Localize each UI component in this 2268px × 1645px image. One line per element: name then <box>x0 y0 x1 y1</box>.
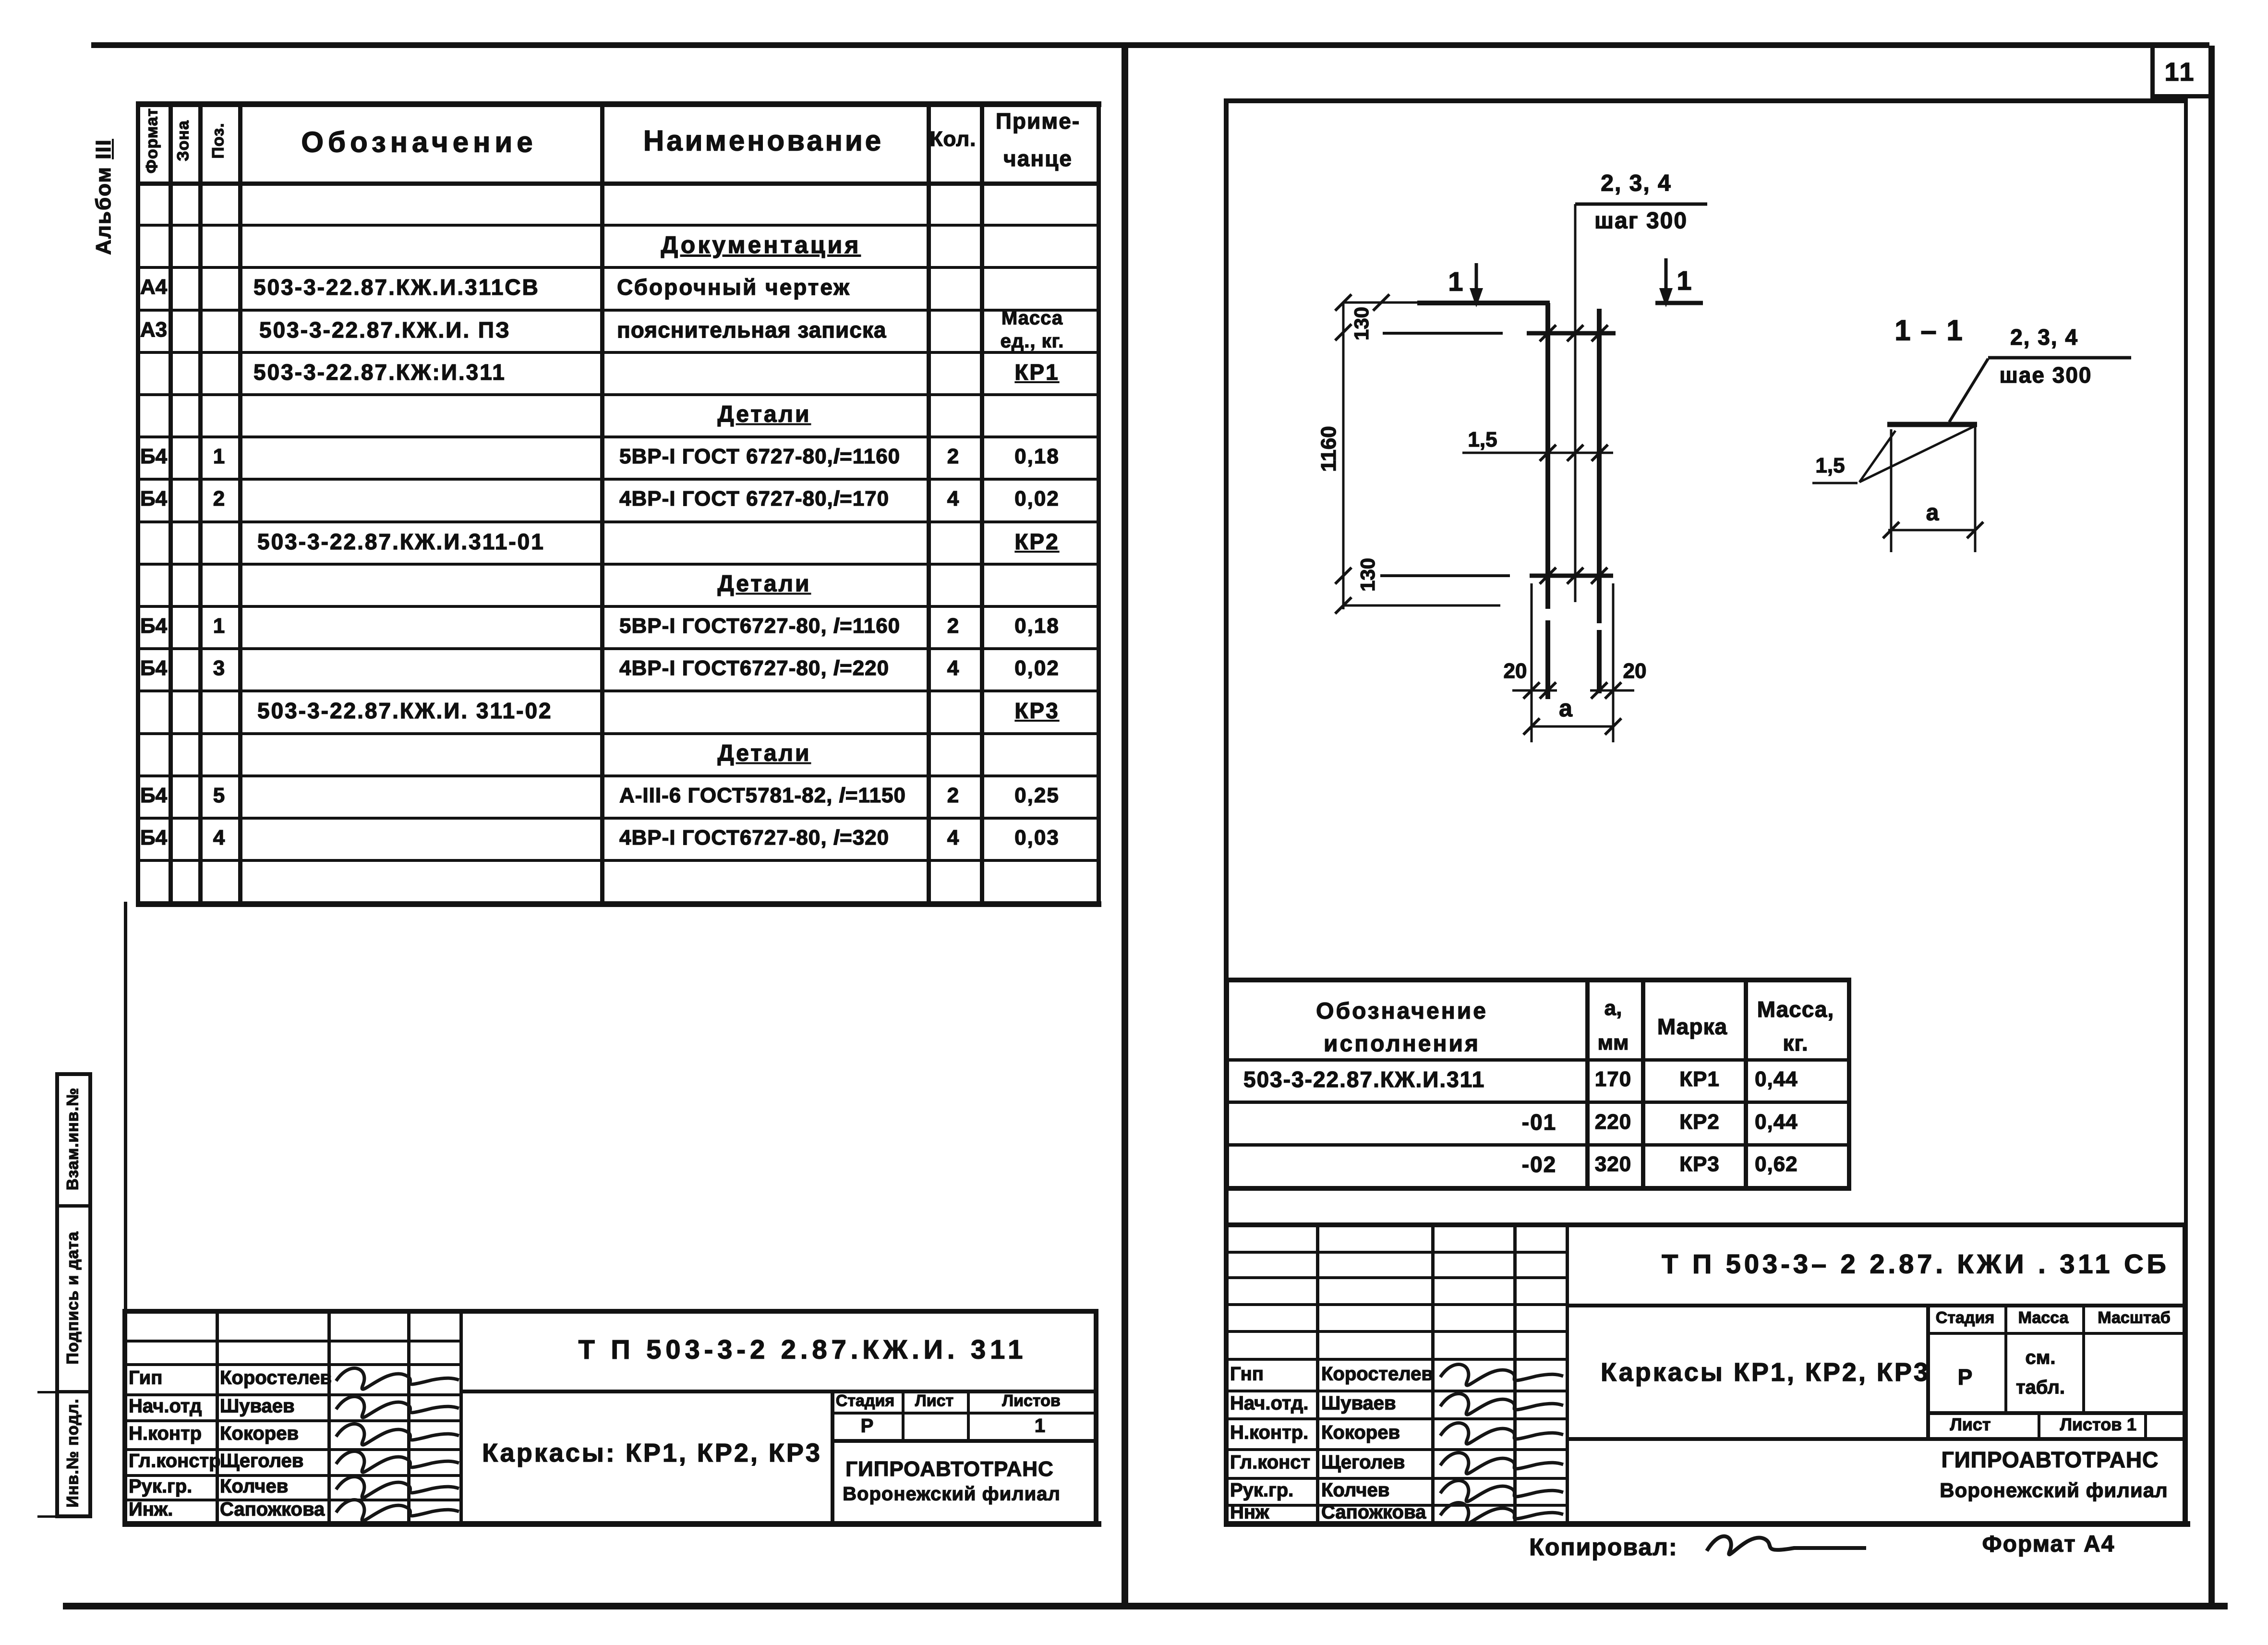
dim text a sec <box>1926 500 1939 526</box>
sec leader top line <box>1988 356 2131 360</box>
front bottom extension line <box>1343 605 1500 607</box>
sec right vline <box>1974 427 1977 552</box>
right person 4 <box>1321 1480 1389 1501</box>
cell poz 5 <box>213 784 225 808</box>
prim 018a <box>1014 445 1060 469</box>
spec table row line 15 <box>136 817 1100 820</box>
sec leader branch <box>1859 431 1895 482</box>
crossbar1 tick a <box>1540 325 1556 341</box>
sidebar stub line lower <box>37 1515 57 1518</box>
right titleblock right border <box>2183 1222 2187 1521</box>
front crossbar1 left part <box>1383 332 1503 335</box>
right person 2 <box>1321 1422 1400 1444</box>
left titleblock names row r2 <box>122 1363 459 1366</box>
header Oboznachenie <box>301 126 537 159</box>
prim 002b <box>1014 656 1060 680</box>
header Poz rotated <box>209 122 228 158</box>
signature squiggle 4 <box>336 1477 459 1498</box>
sidebar label Vzam <box>64 1088 83 1190</box>
left role 5 <box>129 1499 173 1521</box>
left titleblock names row r7 <box>122 1499 459 1501</box>
vt r3 c3 <box>1679 1152 1720 1176</box>
left titleblock names row r1 <box>122 1340 459 1343</box>
right person 5 <box>1321 1502 1426 1524</box>
sidebar label Inv <box>64 1398 83 1507</box>
spec table row line 6 <box>136 435 1100 438</box>
header Format rotated <box>143 108 162 173</box>
right stadia col2 <box>2082 1304 2085 1411</box>
vt r3 c4 <box>1755 1152 1798 1176</box>
right titleblock names row r9 <box>1224 1504 1566 1507</box>
spec table column line 5 <box>927 101 931 906</box>
right titleblock col line 3 <box>1513 1222 1517 1521</box>
sec diagonal <box>1859 425 1976 482</box>
left listov label <box>1002 1392 1061 1411</box>
left titleblock names row r5 <box>122 1448 459 1451</box>
cell B4 row7 <box>140 445 167 469</box>
front crossbar1 bold part <box>1527 331 1616 336</box>
front right bar lower dash <box>1597 630 1602 693</box>
cell poz 2 <box>213 487 225 511</box>
crossbar1 tick b <box>1567 325 1583 341</box>
version table vline 3 <box>1744 978 1748 1190</box>
dim text 130 bottom <box>1356 558 1379 592</box>
left stadia col1 <box>902 1390 905 1439</box>
right page frame right thin <box>2184 98 2188 1521</box>
front right bar <box>1597 309 1602 623</box>
header Naimenovanie <box>643 124 883 157</box>
version table hline 2 <box>1225 1101 1851 1104</box>
right masshtab label <box>2098 1309 2170 1328</box>
right list label <box>1950 1415 1991 1435</box>
kol row8 <box>947 487 959 511</box>
dim tick 130 top <box>1335 324 1351 340</box>
dim20 right tick a <box>1591 682 1607 699</box>
sec dim a tick l <box>1883 522 1899 538</box>
leader drop line <box>1574 204 1577 602</box>
version table vline 4 <box>1847 978 1851 1190</box>
right list row bottom <box>1566 1437 2186 1441</box>
front crossbar2 left part <box>1380 574 1510 577</box>
spec table column line 7 <box>1097 101 1101 906</box>
version table hline 3 <box>1225 1143 1851 1147</box>
prim massa line1 <box>1001 308 1063 329</box>
left stadia col2 <box>967 1390 970 1439</box>
name row16 <box>619 826 889 850</box>
prim 003 <box>1014 826 1060 850</box>
right signature squiggle 4 <box>1440 1481 1563 1502</box>
section Detali 1 <box>717 401 811 428</box>
dim a tick l <box>1523 718 1540 735</box>
prim 025 <box>1014 784 1060 808</box>
sec leader slant <box>1949 359 1988 422</box>
front crossbar2 bold part <box>1530 574 1613 578</box>
dim text 20 right <box>1623 659 1647 683</box>
right massa value tabl <box>2016 1377 2065 1399</box>
left stadia value P <box>861 1415 874 1437</box>
right titleblock names row r3 <box>1224 1330 1566 1333</box>
sec 1,5 underline <box>1812 482 1858 484</box>
spec table row line 16 <box>136 859 1100 862</box>
name row11 <box>619 614 900 638</box>
header Zona rotated <box>174 120 193 161</box>
spec table column line 6 <box>980 101 984 906</box>
dim20 right line <box>1590 689 1634 692</box>
right titleblock top border <box>1224 1222 2186 1227</box>
center page divider line <box>1122 42 1128 1609</box>
designation row3 <box>253 274 540 300</box>
designation row5 <box>253 359 506 385</box>
left stadia header underline <box>831 1412 1094 1415</box>
dim text 1,5 sec <box>1815 454 1845 478</box>
section Dokumentacia <box>661 231 861 259</box>
vt header mm <box>1597 1031 1629 1055</box>
left person 1 <box>220 1396 295 1417</box>
sidebar right border <box>88 1072 92 1518</box>
right page frame left <box>1224 98 1229 1521</box>
dim text 20 left <box>1504 659 1527 683</box>
right role 0 <box>1230 1364 1264 1385</box>
left person 5 <box>220 1499 325 1521</box>
right listov value <box>2127 1415 2136 1435</box>
section Detali 2 <box>717 571 811 597</box>
left titleblock names row r4 <box>122 1419 459 1422</box>
prim KP2 <box>1014 529 1059 555</box>
right listov mini divider <box>2144 1411 2147 1437</box>
spec table row line 12 <box>136 689 1100 692</box>
left titleblock right border <box>1094 1309 1098 1521</box>
sec dim a tick r <box>1967 522 1983 538</box>
left list label <box>915 1392 953 1411</box>
page number 11 text <box>2164 57 2196 87</box>
vt r1 c1 <box>1243 1066 1485 1092</box>
kol row11 <box>947 614 959 638</box>
signature squiggle 5 <box>336 1500 459 1521</box>
kol row12 <box>947 656 959 680</box>
cell B4 row15 <box>140 784 167 808</box>
right signature squiggle 2 <box>1440 1423 1563 1444</box>
crossbar2 tick c <box>1591 568 1607 584</box>
dim20 left tick b <box>1540 682 1556 699</box>
header Primechanie line1 <box>996 108 1080 134</box>
right stadia label <box>1936 1309 1994 1328</box>
left titleblock mid divider <box>831 1390 834 1521</box>
prim KP1 <box>1014 359 1059 385</box>
vt header oboznachenie <box>1316 998 1488 1025</box>
vt r2 c4 <box>1755 1110 1798 1134</box>
section number left 1 <box>1448 266 1463 297</box>
left titleblock names col line 1 <box>216 1309 219 1521</box>
cell B4 row8 <box>140 487 167 511</box>
name row3 <box>617 274 851 300</box>
vt header marka <box>1657 1014 1727 1040</box>
left designation text <box>579 1334 1027 1365</box>
left org branch <box>843 1484 1061 1505</box>
left role 2 <box>129 1423 202 1445</box>
section Detali 3 <box>717 740 811 767</box>
left name text <box>482 1438 822 1468</box>
left person 3 <box>220 1451 303 1472</box>
Album III rotated label <box>92 139 116 255</box>
prim massa line2 <box>1001 331 1064 352</box>
signature squiggle 2 <box>336 1424 459 1445</box>
sec dim a line <box>1888 529 1974 532</box>
left titleblock top border <box>122 1309 1097 1314</box>
dim20 left tick a <box>1523 682 1540 699</box>
right stadia values bottom <box>1926 1411 2186 1415</box>
spec table column line 4 <box>600 101 604 906</box>
left role 1 <box>129 1396 202 1417</box>
vt r3 c1 <box>1522 1151 1556 1177</box>
left role 4 <box>129 1476 192 1498</box>
prim 018b <box>1014 614 1060 638</box>
kol row15 <box>947 784 959 808</box>
left org name <box>845 1457 1054 1481</box>
right listov label <box>2060 1415 2122 1435</box>
dim tick 130 bottom <box>1335 568 1351 584</box>
dim15 tick b <box>1567 445 1583 461</box>
bottom ext vline left <box>1531 583 1533 742</box>
version table hline 0 <box>1225 978 1851 982</box>
right titleblock bottom border <box>1224 1521 2190 1527</box>
vt r1 c3 <box>1679 1067 1720 1091</box>
left content frame line <box>124 902 127 1521</box>
left stadia label <box>836 1392 894 1411</box>
sidebar divider 1 <box>55 1204 92 1208</box>
dim text 1160 <box>1317 426 1341 472</box>
right signature squiggle 0 <box>1440 1365 1563 1386</box>
dim20 left line <box>1512 689 1557 692</box>
left role 0 <box>129 1367 162 1389</box>
right titleblock col line 4 <box>1566 1222 1569 1521</box>
label 2,3,4 front <box>1601 170 1671 197</box>
spec table column line 3 <box>238 101 242 906</box>
spec table header bottom border <box>136 181 1101 186</box>
sheet top heavy line <box>91 42 2209 48</box>
kol row7 <box>947 445 959 469</box>
right org name <box>1942 1447 2159 1473</box>
left titleblock names row r3 <box>122 1393 459 1396</box>
dim 1,5 line <box>1462 452 1613 454</box>
right designation bottom <box>1566 1304 2186 1307</box>
kopiroval text <box>1529 1533 1677 1561</box>
front top extension line <box>1343 302 1422 304</box>
sheet bottom heavy line <box>63 1603 2228 1609</box>
right person 3 <box>1321 1452 1405 1474</box>
crossbar2 tick b <box>1567 568 1583 584</box>
spec table column line 1 <box>169 101 173 906</box>
right massa label <box>2018 1309 2069 1328</box>
dim20 right tick b <box>1605 682 1621 699</box>
vt header kg <box>1783 1030 1808 1056</box>
right list divider <box>2038 1411 2040 1437</box>
spec table row line 1 <box>136 224 1100 227</box>
left titleblock names col line 4 <box>459 1309 463 1521</box>
right role 1 <box>1230 1393 1308 1415</box>
left person 0 <box>220 1367 332 1389</box>
vt r1 c2 <box>1595 1067 1631 1091</box>
spec table bottom border <box>136 901 1101 907</box>
dim text a front <box>1559 694 1572 722</box>
leader top line <box>1575 203 1707 206</box>
left listov value 1 <box>1035 1415 1045 1437</box>
spec table row line 4 <box>136 351 1100 354</box>
front left bar lower dash <box>1545 620 1550 699</box>
label shag300 sec <box>1999 362 2092 388</box>
designation row9 <box>257 529 545 555</box>
right person 1 <box>1321 1393 1396 1415</box>
right titleblock names row r8 <box>1224 1477 1566 1480</box>
vt header a <box>1604 996 1622 1020</box>
spec table row line 2 <box>136 266 1100 269</box>
left role 3 <box>129 1451 221 1472</box>
page number box left border <box>2150 46 2155 97</box>
sidebar left border <box>55 1072 59 1518</box>
signature squiggle 3 <box>336 1451 459 1473</box>
right stadia header bottom <box>1926 1332 2186 1335</box>
left stadia values bottom <box>831 1439 1094 1443</box>
cell B4 row12 <box>140 656 167 680</box>
dim text 1,5 front <box>1468 428 1497 452</box>
sidebar bottom border <box>55 1514 92 1518</box>
right titleblock names row r5 <box>1224 1390 1566 1392</box>
right role 5 <box>1230 1502 1269 1524</box>
sheet right outer heavy line <box>2208 46 2215 1607</box>
right titleblock names row r6 <box>1224 1417 1566 1420</box>
spec table row line 11 <box>136 647 1100 650</box>
signature squiggle 0 <box>336 1368 459 1390</box>
cell poz 1 <box>213 445 225 469</box>
right titleblock names row r1 <box>1224 1276 1566 1279</box>
prim 002a <box>1014 487 1060 511</box>
version table vline 0 <box>1225 978 1229 1190</box>
cell poz 3 <box>213 656 225 680</box>
left titleblock names col line 3 <box>407 1309 410 1521</box>
vt r1 c4 <box>1755 1067 1798 1091</box>
right designation text <box>1662 1248 2170 1280</box>
left titleblock names col line 2 <box>327 1309 331 1521</box>
section number right 1 <box>1677 265 1691 296</box>
cell A4 <box>140 275 167 299</box>
right role 3 <box>1230 1452 1310 1474</box>
header Kol <box>930 127 977 151</box>
right name text <box>1601 1357 1930 1387</box>
left person 2 <box>220 1423 299 1445</box>
right titleblock col line 2 <box>1431 1222 1435 1521</box>
name row8 <box>619 487 889 511</box>
sidebar top border <box>55 1072 92 1076</box>
dim15 tick c <box>1592 445 1608 461</box>
signature squiggle 1 <box>336 1397 459 1418</box>
right page frame top <box>1224 98 2186 103</box>
section mark right arrow line <box>1665 258 1668 299</box>
name row15 <box>619 784 906 808</box>
name row7 <box>619 445 900 469</box>
vt r2 c3 <box>1679 1110 1720 1134</box>
sec top bar bold <box>1887 422 1977 427</box>
sidebar stub line upper <box>37 1391 57 1393</box>
left person 4 <box>220 1476 288 1498</box>
right stadia value P <box>1958 1364 1973 1390</box>
right stadia table left <box>1926 1304 1930 1437</box>
right titleblock col line 1 <box>1316 1222 1319 1521</box>
label 2,3,4 sec <box>2010 324 2078 350</box>
dim tick top <box>1335 294 1351 311</box>
right titleblock names row r0 <box>1224 1251 1566 1254</box>
page number box bottom border <box>2150 94 2213 98</box>
right person 0 <box>1321 1364 1433 1385</box>
section title 1-1 <box>1894 314 1963 347</box>
header Primechanie line2 <box>1003 145 1073 171</box>
dim tick bottom <box>1335 597 1351 614</box>
tick on top extension <box>1373 294 1389 311</box>
right titleblock names row r7 <box>1224 1448 1566 1451</box>
right role 4 <box>1230 1480 1293 1501</box>
left titleblock bottom border <box>122 1521 1101 1527</box>
cell A3 <box>140 318 167 342</box>
right titleblock names row r4 <box>1224 1358 1566 1361</box>
dim15 tick a <box>1540 445 1556 461</box>
spec table row line 7 <box>136 478 1100 481</box>
left titleblock names row r6 <box>122 1474 459 1477</box>
section mark left arrowhead <box>1470 288 1483 307</box>
version table vline 1 <box>1585 978 1590 1190</box>
spec table column line 2 <box>198 101 203 906</box>
dim text 130 top <box>1350 307 1373 340</box>
prim KP3 <box>1014 698 1059 724</box>
spec table row line 13 <box>136 732 1100 735</box>
vt r2 c1 <box>1522 1109 1556 1135</box>
front left bar <box>1545 303 1550 609</box>
version table hline 4 <box>1225 1186 1851 1191</box>
name row12 <box>619 656 889 680</box>
right role 2 <box>1230 1422 1308 1444</box>
dim a front line <box>1532 726 1613 728</box>
sec left vline <box>1890 429 1893 552</box>
dim a tick r <box>1605 718 1621 735</box>
right signature squiggle 5 <box>1440 1503 1563 1524</box>
cell B4 row16 <box>140 826 167 850</box>
version table vline 2 <box>1641 978 1645 1190</box>
section mark right underline <box>1655 301 1703 305</box>
kopiroval signature squiggle <box>1707 1536 1866 1555</box>
format A4 text <box>1982 1531 2115 1558</box>
left titleblock left border <box>122 1309 127 1521</box>
spec table row line 9 <box>136 563 1100 566</box>
vt r3 c2 <box>1595 1152 1631 1176</box>
designation row13 <box>257 698 553 724</box>
spec table row line 14 <box>136 774 1100 777</box>
spec table column line 0 <box>136 101 140 906</box>
crossbar2 tick a <box>1540 568 1556 584</box>
spec table row line 5 <box>136 393 1100 396</box>
crossbar1 tick c <box>1592 325 1608 341</box>
bottom ext vline right <box>1612 583 1615 742</box>
kol row16 <box>947 826 959 850</box>
right signature squiggle 3 <box>1440 1453 1563 1474</box>
right titleblock names row r2 <box>1224 1303 1566 1306</box>
cell poz 4 <box>213 826 225 850</box>
label shag300 front <box>1594 208 1688 234</box>
vt r2 c2 <box>1595 1110 1631 1134</box>
spec table row line 8 <box>136 520 1100 523</box>
vt header massa <box>1757 996 1834 1022</box>
right signature squiggle 1 <box>1440 1394 1563 1415</box>
left titleblock designation bottom <box>459 1390 1094 1393</box>
vt header ispolnenia <box>1324 1031 1480 1057</box>
name row4 <box>617 317 886 343</box>
sidebar divider 2 <box>55 1390 92 1393</box>
